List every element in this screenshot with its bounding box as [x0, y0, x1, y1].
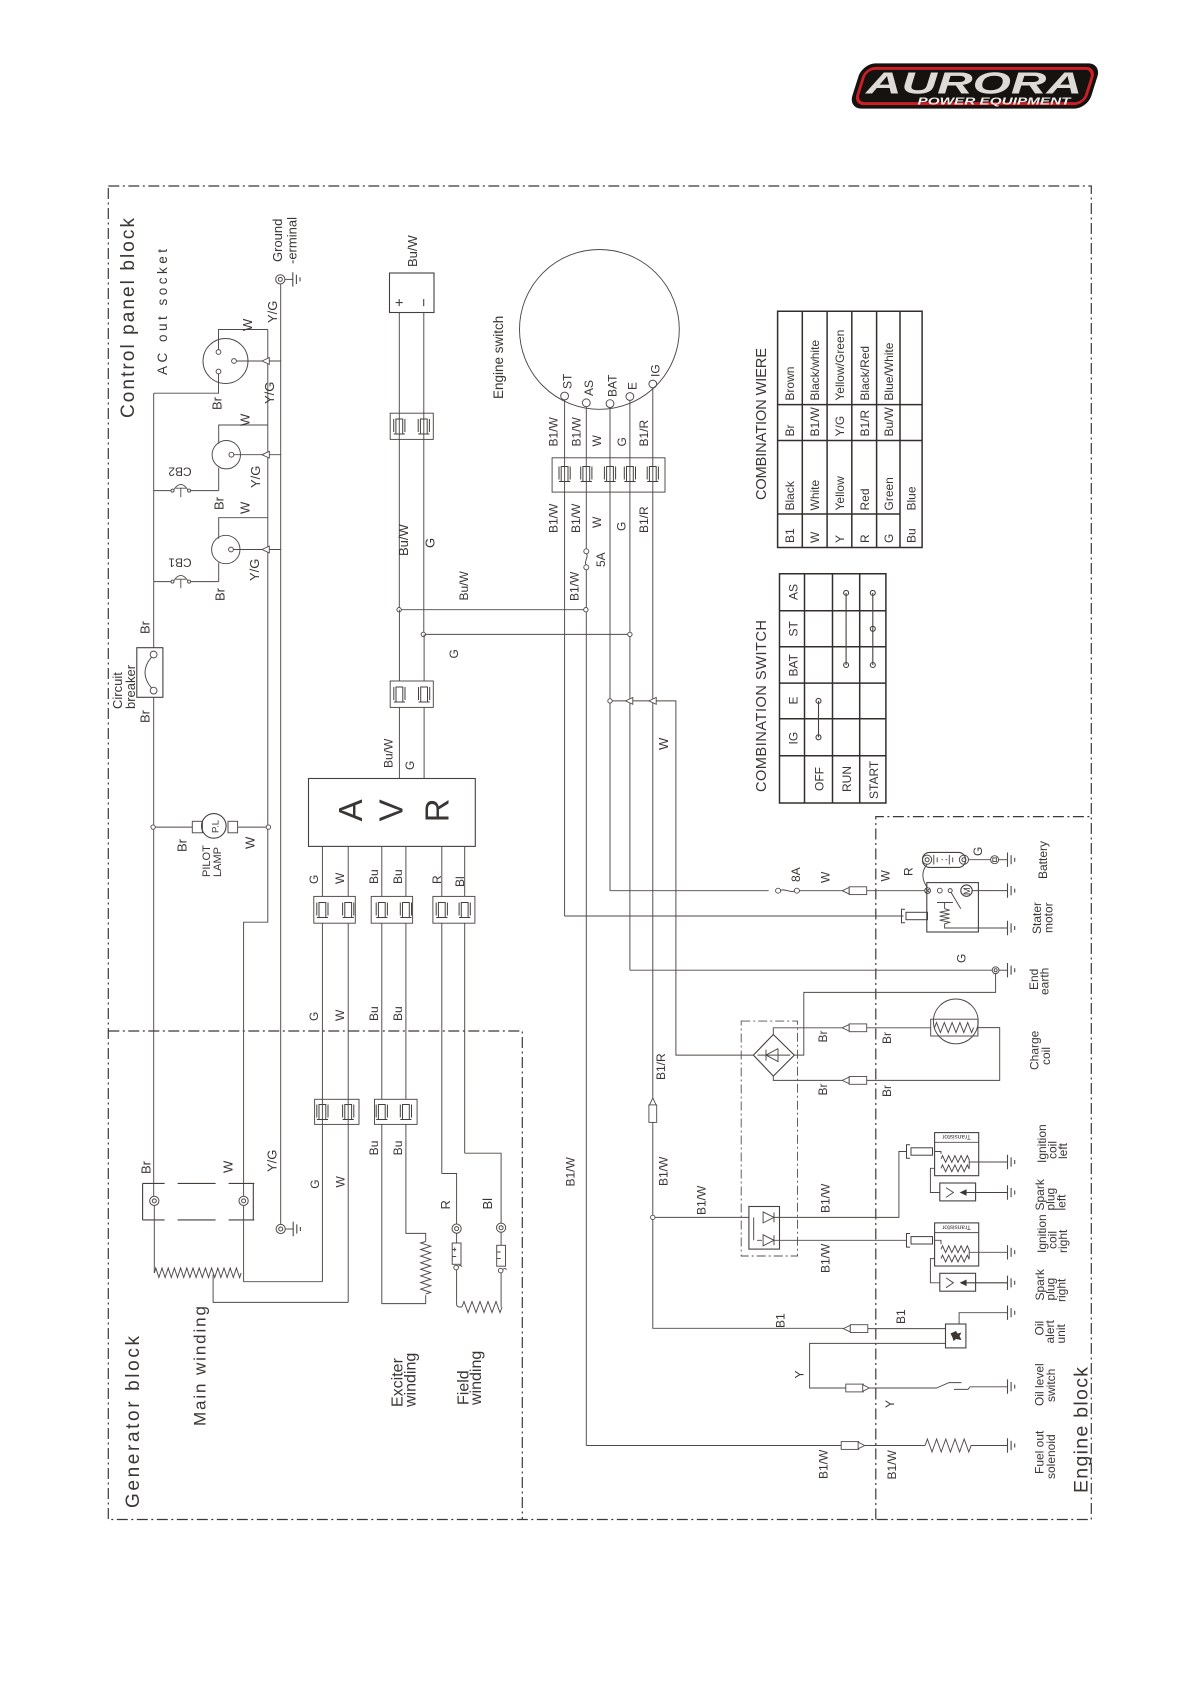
svg-text:W: W — [808, 531, 822, 543]
wire diode out upper — [774, 1152, 907, 1218]
connector (2P) on DC pair — [390, 413, 433, 439]
wire W to socket2 — [219, 425, 268, 444]
svg-text:W: W — [656, 737, 671, 750]
svg-text:M: M — [962, 887, 973, 895]
svg-text:G: G — [308, 1179, 322, 1188]
AC socket 3 — [212, 535, 240, 563]
spark plug left — [940, 1183, 976, 1201]
terminal ST — [561, 392, 569, 400]
svg-text:B1/W: B1/W — [569, 416, 583, 446]
svg-text:R: R — [430, 875, 444, 884]
svg-text:ST: ST — [561, 373, 575, 389]
svg-text:right: right — [1055, 1278, 1069, 1302]
svg-text:Bu/W: Bu/W — [405, 234, 420, 267]
svg-text:Y/G: Y/G — [248, 466, 263, 488]
connector bullet Br — [842, 1024, 867, 1032]
terminal Bl — [497, 1223, 506, 1232]
wire Y/G bus — [280, 284, 282, 1224]
svg-text:G: G — [615, 437, 629, 446]
svg-text:motor: motor — [1042, 902, 1056, 933]
main winding — [154, 1268, 241, 1278]
svg-text:G: G — [615, 522, 629, 531]
svg-text:G: G — [307, 1012, 321, 1021]
wire secondary to spark plug right — [930, 1259, 939, 1283]
svg-text:G: G — [403, 761, 417, 770]
ignition coil right — [935, 1223, 979, 1266]
connector bullet B1/W — [586, 1445, 841, 1447]
fuse 8A — [776, 888, 800, 893]
wire rectifier right to end earth — [794, 974, 995, 1055]
svg-text:B1/W: B1/W — [547, 503, 561, 533]
connector (2P) R Bl — [433, 896, 475, 923]
svg-text:W: W — [590, 435, 604, 447]
logo AURORA Power Equipment — [848, 63, 1101, 108]
wire B1/W from ST — [564, 400, 566, 916]
wire Br bus upper — [153, 393, 155, 648]
svg-text:Bu: Bu — [905, 528, 919, 543]
wire to field coil — [457, 1270, 462, 1307]
svg-text:Y: Y — [833, 535, 847, 543]
svg-text:B1/W: B1/W — [657, 1156, 671, 1186]
ignition coil left — [935, 1133, 979, 1176]
primary winding — [941, 1246, 969, 1253]
svg-text:G: G — [882, 534, 896, 543]
connector bullet B1 — [843, 1325, 868, 1333]
svg-text:G: G — [423, 538, 438, 548]
svg-text:AS: AS — [787, 584, 801, 600]
connector (2P) G W — [314, 896, 356, 923]
exciter winding — [421, 1242, 431, 1295]
wire W bus — [244, 330, 268, 1197]
svg-text:Y/G: Y/G — [833, 416, 847, 437]
label + — [396, 299, 403, 306]
terminal Br — [150, 1196, 159, 1205]
solenoid contacts — [925, 888, 931, 894]
switch OFF contacts IG-E — [818, 701, 820, 737]
node G link — [426, 633, 628, 635]
pilot lamp PL — [192, 821, 202, 833]
svg-text:COMBINATION SWITCH: COMBINATION SWITCH — [754, 620, 770, 792]
breaker CB2 — [171, 484, 191, 497]
AC socket 2 — [212, 441, 240, 469]
svg-text:BAT: BAT — [606, 374, 620, 397]
rectifier dash-dot case — [741, 1021, 797, 1256]
svg-text:BAT: BAT — [787, 653, 801, 676]
svg-text:unit: unit — [1054, 1323, 1068, 1343]
battery — [923, 852, 966, 867]
svg-text:B1/W: B1/W — [568, 571, 582, 601]
wire — [799, 890, 842, 892]
arrow — [262, 451, 269, 458]
svg-text:Br: Br — [175, 838, 190, 852]
terminal BAT — [606, 400, 614, 408]
ground terminal of Y/G — [276, 1224, 285, 1233]
fuse 5A — [584, 549, 589, 570]
wire B1/R from IG — [652, 388, 654, 1098]
wire motor to ground — [972, 890, 1007, 892]
arrow on G wire — [626, 698, 633, 705]
engine block border — [876, 817, 1092, 1520]
AC socket 1 — [203, 339, 248, 384]
wire rectifier bottom Br — [773, 1076, 842, 1080]
svg-text:Engine block: Engine block — [1071, 1367, 1093, 1493]
pilot lamp branch — [151, 825, 155, 829]
wire socket2 Br — [218, 468, 220, 491]
connector (2P) AVR input — [390, 681, 433, 707]
svg-text:Green: Green — [882, 477, 896, 510]
svg-text:W: W — [590, 516, 604, 528]
svg-text:Br: Br — [212, 496, 227, 510]
svg-text:W: W — [238, 413, 253, 426]
connector bullet B1/R (vertical) — [649, 1098, 657, 1123]
svg-text:B1: B1 — [774, 1313, 788, 1328]
label - — [423, 299, 425, 306]
svg-text:R: R — [438, 1200, 453, 1209]
svg-text:Y: Y — [883, 1400, 897, 1408]
connector bullet Y — [846, 1384, 870, 1392]
wire W to socket3 — [219, 518, 268, 539]
svg-text:Br: Br — [210, 396, 225, 410]
svg-text:Transistor: Transistor — [941, 1223, 970, 1230]
diode 1 — [763, 1212, 774, 1223]
svg-text:coil: coil — [1039, 1047, 1053, 1065]
svg-text:B1: B1 — [894, 1309, 908, 1324]
charge coil — [933, 999, 978, 1044]
wire R to field — [442, 1174, 457, 1225]
wire B1/W below fuse — [585, 570, 587, 1446]
svg-text:Bu: Bu — [367, 869, 381, 884]
wire R battery to solenoid — [923, 864, 927, 888]
wire Br to main winding — [153, 1206, 155, 1274]
wire ST to starter solenoid — [565, 915, 904, 917]
svg-text:Brown: Brown — [783, 367, 797, 401]
switch START contacts BAT-ST-AS — [872, 593, 874, 665]
svg-text:CB2: CB2 — [168, 465, 192, 479]
primary winding — [941, 1156, 969, 1163]
wire coil to ground — [969, 1251, 1007, 1253]
svg-text:W: W — [238, 501, 253, 514]
main winding terminal box (dashed) — [143, 1183, 254, 1220]
svg-text:B1/W: B1/W — [808, 406, 822, 436]
rectifier bridge — [753, 1035, 794, 1077]
motor M — [961, 885, 972, 896]
svg-text:breaker: breaker — [123, 664, 138, 709]
svg-text:W: W — [243, 836, 258, 849]
switch blade — [951, 892, 961, 909]
svg-text:left: left — [1056, 1142, 1070, 1159]
svg-text:COMBINATION WIERE: COMBINATION WIERE — [754, 348, 770, 500]
svg-text:switch: switch — [1044, 1369, 1058, 1402]
svg-text:Transistor: Transistor — [941, 1133, 970, 1140]
switch RUN contacts BAT-AS — [845, 593, 847, 665]
svg-text:right: right — [1056, 1229, 1070, 1253]
wire Y from oil level to oil alert — [810, 1343, 946, 1388]
svg-text:Bu/W: Bu/W — [396, 523, 411, 556]
svg-text:8A: 8A — [789, 867, 803, 882]
connector (5P) engine switch — [552, 458, 665, 492]
brush - — [500, 1232, 502, 1245]
svg-text:Br: Br — [138, 620, 153, 634]
svg-text:A: A — [332, 799, 369, 821]
svg-text:Bu: Bu — [367, 1141, 381, 1156]
fuel out solenoid coil — [925, 1439, 1007, 1452]
svg-text:V: V — [373, 799, 410, 821]
svg-text:Bu: Bu — [391, 1006, 405, 1021]
wire Bu (left) to exciter bottom — [382, 1124, 426, 1303]
svg-text:W: W — [819, 871, 833, 883]
wire G to AVR — [423, 634, 425, 681]
wire junction to diode unit — [655, 1216, 749, 1218]
svg-text:White: White — [808, 480, 822, 511]
svg-text:B1/R: B1/R — [654, 1053, 668, 1080]
wire secondary to spark plug left — [930, 1168, 939, 1192]
wire coil to ground — [969, 1161, 1007, 1163]
svg-text:R: R — [418, 798, 455, 822]
svg-text:Br: Br — [783, 424, 797, 436]
ST spade connector — [902, 909, 928, 923]
wire G from E — [629, 400, 631, 970]
connector (2P) Bu Bu in generator — [375, 1099, 418, 1124]
connector bullet Br — [842, 1077, 867, 1085]
wire Br bus lower — [153, 697, 155, 1196]
ground terminal (top) — [276, 275, 285, 284]
wire G — [423, 707, 425, 778]
svg-text:Y/G: Y/G — [262, 382, 277, 404]
AVR unit — [309, 779, 476, 847]
svg-text:RUN: RUN — [840, 766, 854, 792]
svg-text:AS: AS — [582, 380, 596, 396]
terminal E — [626, 393, 634, 401]
svg-text:Red: Red — [858, 488, 872, 510]
svg-text:W: W — [333, 1009, 347, 1021]
svg-text:B1/W: B1/W — [569, 503, 583, 533]
svg-text:Bu/W: Bu/W — [382, 738, 396, 768]
terminal W — [239, 1196, 248, 1205]
solenoid coil — [937, 903, 953, 909]
svg-text:B1/W: B1/W — [695, 1185, 709, 1215]
svg-text:LAMP: LAMP — [212, 847, 224, 877]
svg-text:Black/white: Black/white — [808, 340, 822, 401]
diode unit — [749, 1207, 780, 1250]
terminal IG — [649, 380, 657, 388]
circuit breaker — [137, 648, 163, 698]
svg-text:B1: B1 — [783, 528, 797, 543]
svg-text:Yellow: Yellow — [833, 476, 847, 511]
svg-text:POWER EQUIPMENT: POWER EQUIPMENT — [918, 97, 1072, 108]
svg-text:W: W — [333, 1176, 347, 1188]
svg-text:R: R — [858, 534, 872, 543]
svg-text:Black/Red: Black/Red — [858, 346, 872, 401]
svg-text:P.L: P.L — [211, 820, 222, 833]
outer dash-dot diagram border — [108, 186, 1091, 1520]
svg-text:E: E — [626, 382, 640, 390]
svg-text:B1/W: B1/W — [885, 1449, 899, 1479]
svg-text:B1/W: B1/W — [564, 1156, 578, 1186]
svg-text:Br: Br — [138, 709, 153, 723]
svg-text:-erminal: -erminal — [285, 217, 300, 264]
ground — [293, 272, 300, 286]
svg-text:Control panel block: Control panel block — [118, 218, 139, 419]
wire socket1 to Y/G — [236, 360, 280, 362]
oil alert unit — [946, 1324, 966, 1348]
svg-text:G: G — [955, 954, 969, 963]
terminal AS — [582, 399, 590, 407]
generator block border — [108, 1031, 522, 1520]
spark plug right — [940, 1273, 976, 1291]
svg-text:Battery: Battery — [1036, 841, 1050, 879]
wire Bl to field — [465, 1153, 501, 1223]
svg-text:earth: earth — [1038, 968, 1052, 995]
svg-text:Y/G: Y/G — [265, 301, 280, 323]
coil spade left — [907, 1145, 933, 1159]
wire diode out lower — [774, 1239, 907, 1241]
svg-text:G: G — [447, 649, 461, 658]
earth terminal — [991, 856, 999, 864]
wire W from BAT — [609, 408, 611, 891]
svg-text:Black: Black — [783, 480, 797, 510]
wires into generator block — [322, 923, 464, 1302]
wire G from DC box — [423, 313, 425, 635]
wire battery to earth — [969, 859, 991, 861]
svg-text:B1/W: B1/W — [819, 1183, 833, 1213]
wire socket1 Br — [154, 374, 219, 393]
wire Bu/W — [398, 707, 400, 778]
wire center tap to W (AVR) — [213, 1275, 348, 1303]
svg-text:IG: IG — [648, 364, 662, 377]
svg-text:Br: Br — [213, 587, 228, 601]
svg-text:Bu/W: Bu/W — [457, 570, 471, 600]
wire W to starter battery — [610, 890, 769, 892]
svg-text:winding: winding — [468, 1351, 485, 1406]
svg-text:W: W — [333, 872, 347, 884]
ground — [293, 1222, 300, 1236]
wire socket3 to Y/G — [233, 549, 280, 551]
svg-text:Br: Br — [816, 1030, 830, 1042]
svg-text:W: W — [221, 1160, 236, 1173]
starter motor box — [927, 883, 979, 932]
svg-text:Bl: Bl — [453, 876, 467, 887]
svg-text:OFF: OFF — [813, 767, 827, 791]
svg-text:winding: winding — [403, 1353, 420, 1408]
coil spade right — [907, 1234, 933, 1248]
arrow on B1/R wire — [649, 698, 656, 705]
node W branch row — [612, 701, 753, 1055]
ground — [1008, 853, 1015, 867]
svg-text:Y/G: Y/G — [247, 559, 262, 581]
wire Bu/W from DC box — [398, 313, 400, 610]
svg-text:Br: Br — [816, 1083, 830, 1095]
svg-text:Engine switch: Engine switch — [491, 316, 506, 399]
svg-text:5A: 5A — [594, 552, 608, 567]
svg-text:Blue/White: Blue/White — [882, 342, 896, 400]
svg-text:Bu: Bu — [367, 1006, 381, 1021]
svg-text:Bu: Bu — [391, 1141, 405, 1156]
svg-text:solenoid: solenoid — [1044, 1434, 1058, 1479]
end earth terminal — [992, 967, 999, 974]
svg-text:E: E — [787, 696, 801, 704]
oil level switch — [869, 1383, 1007, 1390]
wire CB1 branch — [154, 581, 219, 583]
node Bu/W link — [401, 609, 583, 611]
arrow — [262, 358, 269, 365]
wire CB2 branch — [154, 490, 219, 492]
wire G to end earth — [630, 969, 992, 971]
wire Bu/W to AVR — [398, 610, 400, 681]
wire rectifier top Br — [773, 1028, 842, 1035]
svg-text:G: G — [307, 875, 321, 884]
svg-text:Main winding: Main winding — [191, 1306, 210, 1426]
svg-text:Br: Br — [880, 1032, 894, 1044]
terminal R — [452, 1224, 461, 1233]
wire to ground — [285, 278, 293, 280]
connector (2P) G W in generator — [315, 1099, 359, 1124]
svg-text:CB1: CB1 — [168, 556, 192, 570]
wire B1/W from AS — [585, 407, 587, 549]
wire W to socket1 — [219, 330, 268, 350]
svg-text:Yellow/Green: Yellow/Green — [833, 330, 847, 401]
svg-text:ST: ST — [787, 620, 801, 636]
AVR output wires G W Bu Bu R Bl — [322, 846, 464, 896]
svg-text:IG: IG — [787, 732, 801, 745]
DC outlet box — [390, 273, 435, 313]
svg-text:Ground: Ground — [270, 219, 285, 262]
brush + — [456, 1233, 458, 1243]
svg-text:Generator block: Generator block — [123, 1336, 144, 1509]
svg-text:left: left — [1055, 1194, 1069, 1211]
connector bullet W — [842, 887, 867, 895]
svg-text:AC out socket: AC out socket — [155, 249, 170, 375]
svg-text:Y/G: Y/G — [265, 1150, 280, 1172]
svg-text:R: R — [901, 867, 915, 876]
svg-text:Blue: Blue — [905, 486, 919, 510]
svg-text:Bl: Bl — [480, 1198, 495, 1210]
svg-text:B1/W: B1/W — [817, 1449, 831, 1479]
diode 2 — [763, 1235, 774, 1246]
wire socket2 to Y/G — [234, 454, 281, 456]
svg-text:B1/W: B1/W — [547, 416, 561, 446]
svg-text:Br: Br — [880, 1085, 894, 1097]
svg-text:W: W — [879, 870, 893, 882]
svg-text:Bu/W: Bu/W — [882, 406, 896, 436]
connector (2P) Bu Bu — [371, 896, 412, 923]
wire oil alert to ground — [959, 1313, 1007, 1324]
arrow — [262, 546, 269, 553]
breaker CB1 — [171, 575, 191, 588]
field winding — [462, 1302, 502, 1313]
svg-text:W: W — [240, 318, 255, 331]
svg-text:B1/R: B1/R — [637, 419, 651, 446]
wire Bu (right) to exciter top — [406, 1124, 426, 1241]
svg-text:START: START — [867, 760, 881, 799]
engine switch — [520, 250, 680, 410]
svg-text:AURORA: AURORA — [864, 66, 1082, 101]
wire socket3 Br — [218, 563, 220, 582]
svg-text:B1/R: B1/R — [858, 409, 872, 436]
svg-text:Y: Y — [793, 1370, 807, 1378]
svg-text:G: G — [971, 847, 985, 856]
svg-text:Bu: Bu — [391, 869, 405, 884]
svg-text:B1/R: B1/R — [637, 506, 651, 533]
wire W down through terminal — [244, 1206, 323, 1282]
svg-text:B1/W: B1/W — [819, 1243, 833, 1273]
svg-text:Br: Br — [139, 1160, 154, 1174]
